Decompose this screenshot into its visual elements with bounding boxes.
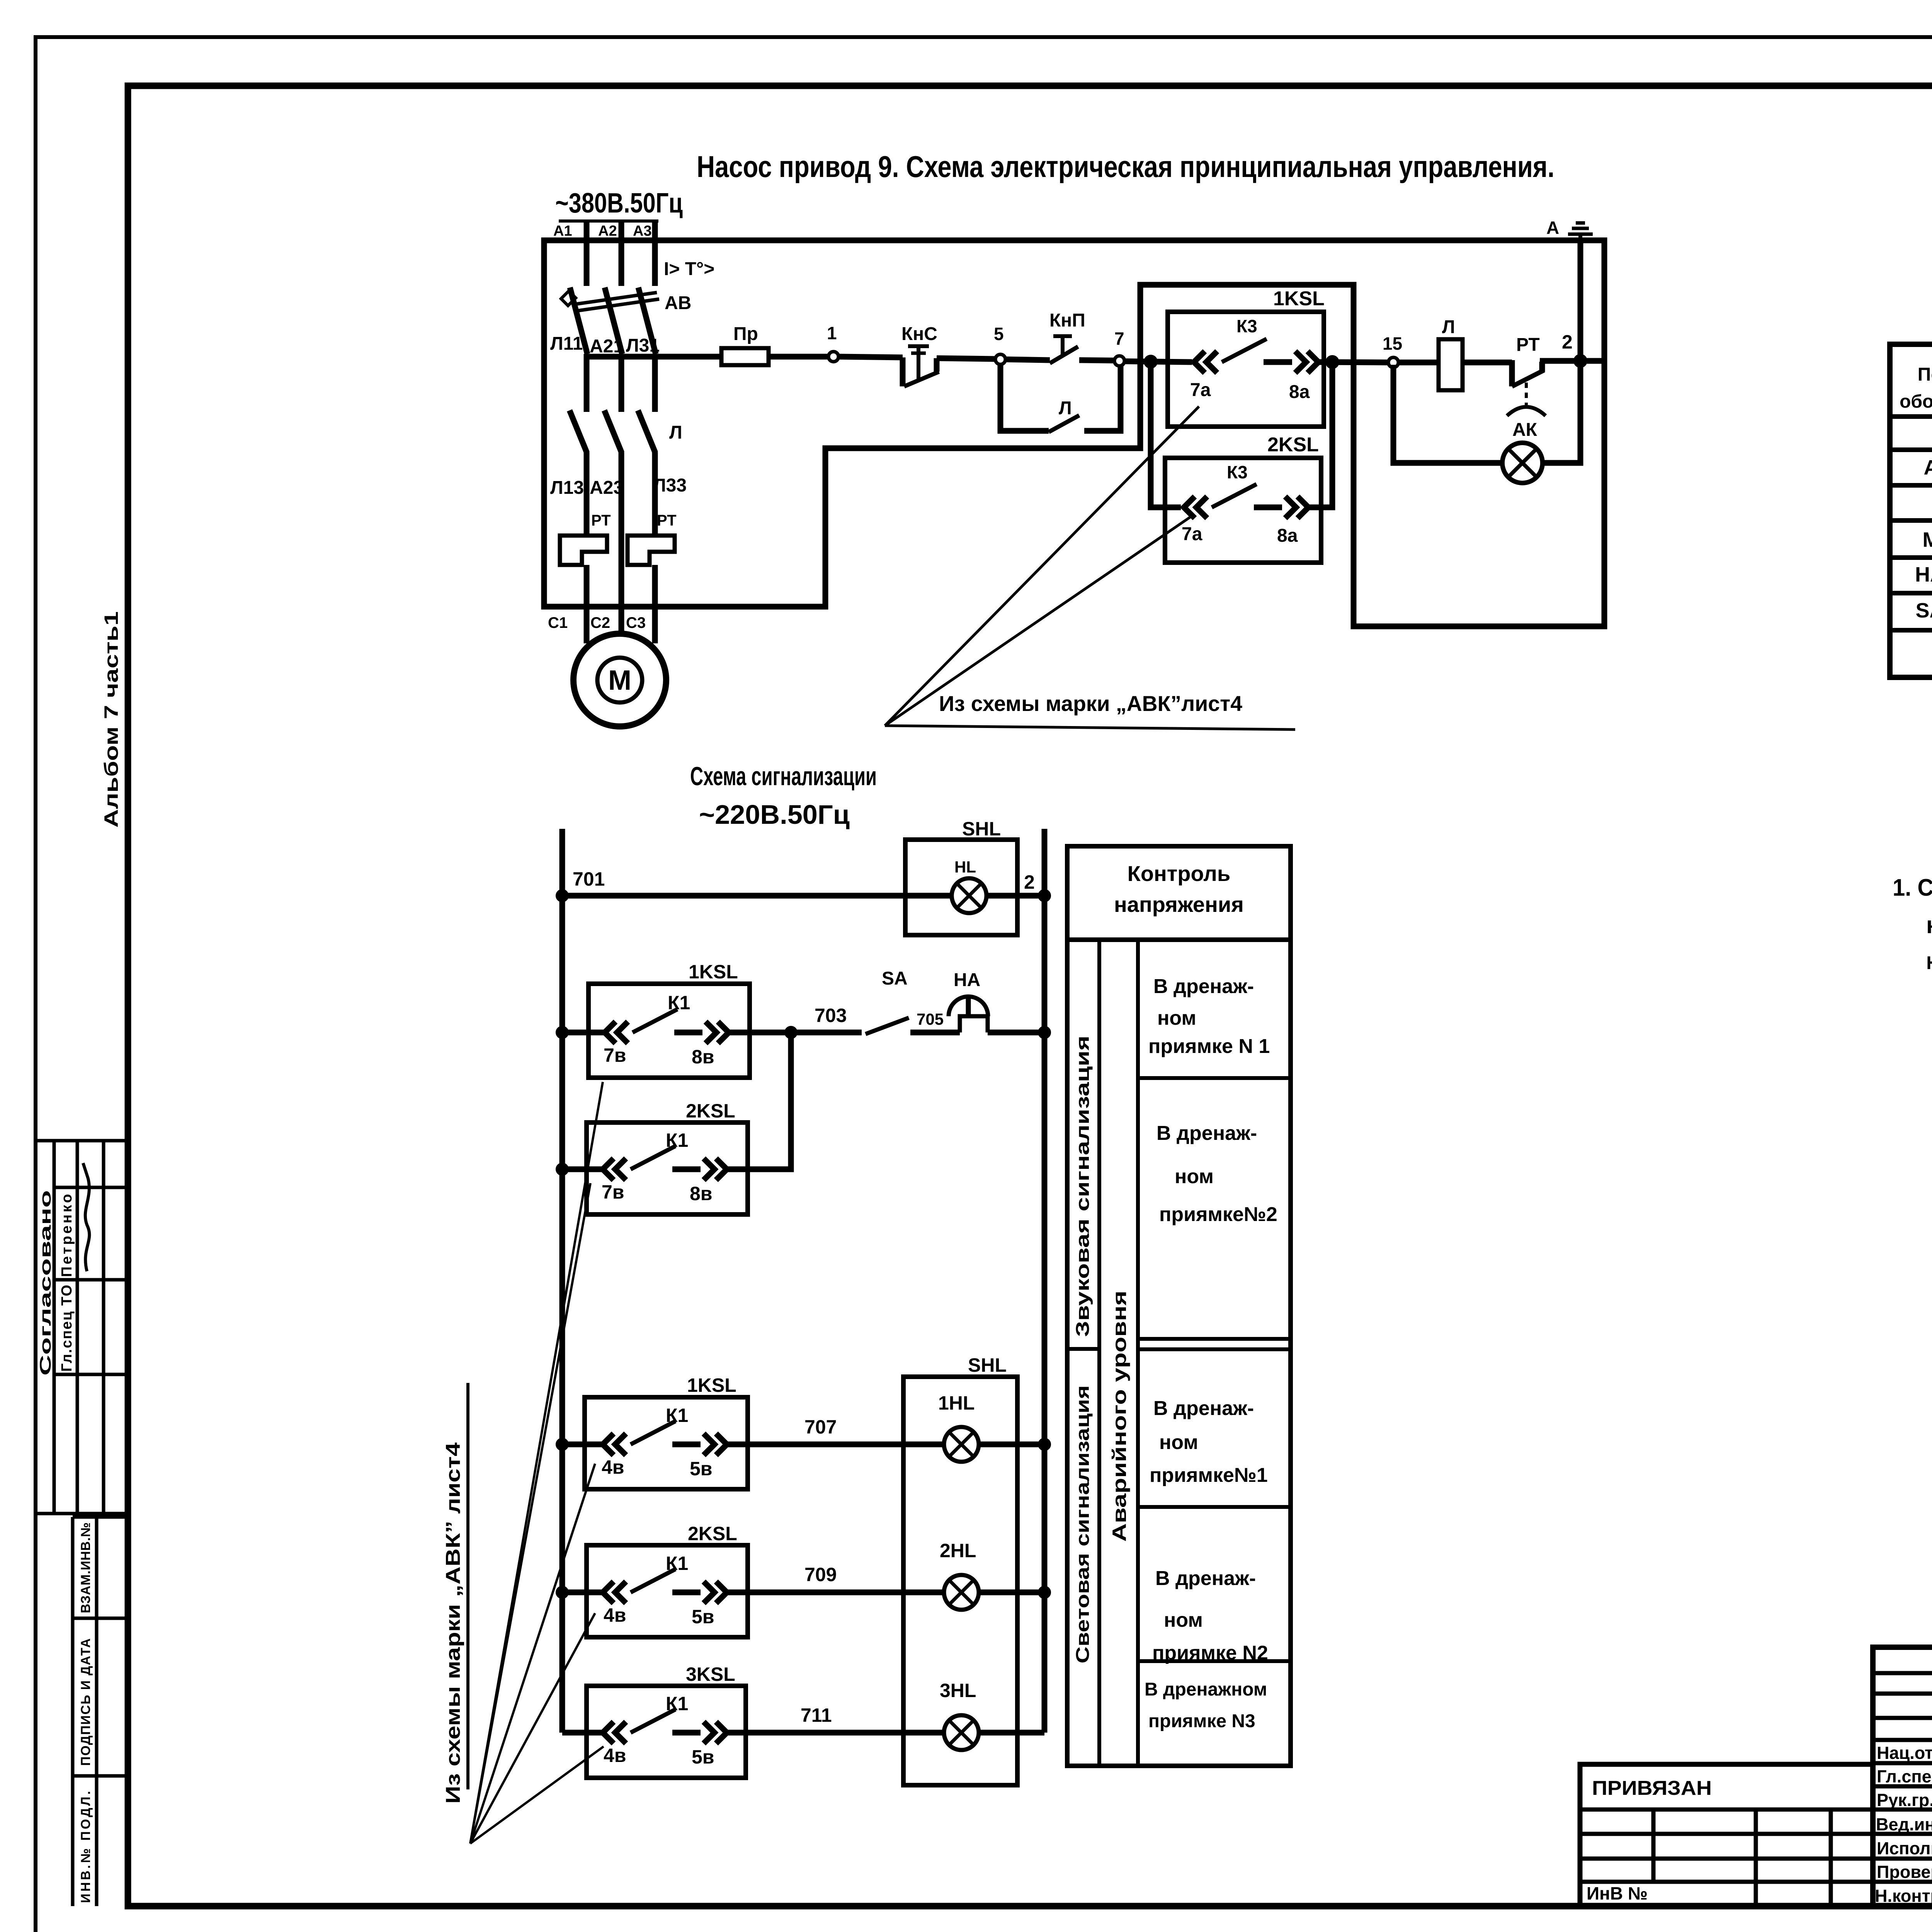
svg-text:КнС: КнС	[901, 324, 937, 344]
svg-text:РТ: РТ	[657, 512, 677, 529]
svg-text:напряжения: напряжения	[1114, 892, 1244, 917]
svg-text:Петренко: Петренко	[59, 1194, 75, 1277]
svg-text:нижнего уровня в дренажных: нижнего уровня в дренажных приямках.	[1926, 948, 1932, 975]
svg-text:Схема сигнализации: Схема сигнализации	[690, 762, 877, 791]
svg-text:5в: 5в	[690, 1458, 713, 1480]
svg-text:701: 701	[573, 868, 605, 890]
svg-text:А23: А23	[590, 478, 624, 498]
svg-text:А2: А2	[598, 223, 617, 239]
svg-text:Гл.спец ТО: Гл.спец ТО	[59, 1285, 75, 1372]
svg-text:В дренаж-: В дренаж-	[1153, 975, 1254, 998]
svg-text:Звуковая сигнализация: Звуковая сигнализация	[1073, 1036, 1093, 1337]
svg-text:С2: С2	[590, 614, 610, 631]
svg-text:С3: С3	[626, 614, 646, 631]
svg-text:3HL: 3HL	[940, 1680, 976, 1701]
svg-text:РТ: РТ	[1516, 335, 1540, 355]
svg-text:Световая сигнализация: Световая сигнализация	[1073, 1385, 1093, 1663]
svg-text:ИнВ №: ИнВ №	[1587, 1883, 1648, 1903]
svg-text:705: 705	[917, 1010, 944, 1028]
svg-text:ном: ном	[1159, 1431, 1198, 1454]
svg-text:SHL: SHL	[962, 818, 1001, 840]
svg-text:К1: К1	[666, 1129, 688, 1151]
svg-text:4в: 4в	[604, 1604, 626, 1626]
svg-text:НА: НА	[1915, 563, 1932, 586]
svg-text:2HL: 2HL	[940, 1540, 976, 1561]
svg-text:КнП: КнП	[1049, 310, 1085, 331]
svg-text:Альбом 7 часть1: Альбом 7 часть1	[100, 611, 122, 828]
svg-text:К1: К1	[666, 1405, 688, 1426]
svg-text:1. Схемой управления предусм: 1. Схемой управления предусмотрено ручно…	[1893, 874, 1932, 901]
svg-text:Гл.спец: Гл.спец	[1877, 1767, 1932, 1786]
svg-text:~220В.50Гц: ~220В.50Гц	[699, 799, 850, 830]
svg-text:5: 5	[994, 324, 1004, 344]
svg-text:SHL: SHL	[968, 1354, 1007, 1376]
svg-text:1KSL: 1KSL	[689, 961, 738, 983]
svg-text:703: 703	[815, 1005, 847, 1026]
svg-text:8в: 8в	[690, 1183, 713, 1204]
svg-text:2: 2	[1024, 871, 1035, 893]
svg-text:насоса и автоматическое отк: насоса и автоматическое отключение при д…	[1926, 912, 1932, 939]
svg-text:HL: HL	[954, 858, 976, 876]
svg-text:Из схемы марки „АВК” лист4: Из схемы марки „АВК” лист4	[442, 1442, 464, 1804]
svg-text:Насос привод 9. Схема электрич: Насос привод 9. Схема электрическая прин…	[697, 150, 1554, 184]
svg-text:8в: 8в	[692, 1046, 714, 1068]
svg-text:1: 1	[827, 323, 837, 343]
svg-text:1HL: 1HL	[938, 1392, 975, 1414]
svg-text:А3: А3	[633, 223, 652, 239]
svg-text:ИНВ.№ ПОДЛ.: ИНВ.№ ПОДЛ.	[78, 1791, 93, 1903]
svg-text:Согласовано: Согласовано	[37, 1190, 54, 1376]
svg-text:А21: А21	[590, 336, 624, 357]
svg-text:Из схемы марки „АВК”лист4: Из схемы марки „АВК”лист4	[939, 691, 1242, 716]
svg-text:3KSL: 3KSL	[686, 1663, 735, 1685]
svg-text:ПОДПИСЬ И ДАТА: ПОДПИСЬ И ДАТА	[78, 1638, 93, 1766]
svg-text:приямке N2: приямке N2	[1152, 1642, 1268, 1664]
svg-text:Л: Л	[1059, 398, 1072, 418]
svg-text:711: 711	[801, 1704, 832, 1726]
svg-text:В дренаж-: В дренаж-	[1155, 1567, 1256, 1590]
svg-text:1KSL: 1KSL	[687, 1374, 736, 1396]
svg-text:7: 7	[1114, 328, 1124, 349]
svg-text:1KSL: 1KSL	[1273, 287, 1325, 310]
svg-text:8а: 8а	[1277, 526, 1298, 546]
svg-text:К1: К1	[668, 992, 690, 1014]
svg-text:приямке N 1: приямке N 1	[1148, 1035, 1270, 1058]
svg-text:5в: 5в	[692, 1746, 714, 1768]
svg-text:РТ: РТ	[591, 512, 611, 529]
svg-text:Л11: Л11	[550, 333, 583, 354]
svg-text:А1: А1	[553, 223, 572, 239]
svg-text:Вед.инж: Вед.инж	[1876, 1815, 1932, 1834]
svg-text:обознач: обознач	[1900, 391, 1932, 412]
svg-text:А: А	[1924, 456, 1932, 479]
svg-text:С1: С1	[548, 614, 568, 631]
svg-text:приямке N3: приямке N3	[1148, 1711, 1255, 1731]
svg-text:Рук.гр.: Рук.гр.	[1877, 1790, 1932, 1810]
svg-text:Пр: Пр	[733, 324, 758, 344]
svg-text:Н.контр.: Н.контр.	[1875, 1886, 1932, 1906]
svg-text:ном: ном	[1175, 1165, 1214, 1188]
svg-text:SA: SA	[882, 968, 908, 989]
svg-text:М: М	[1923, 528, 1932, 551]
svg-text:Контроль: Контроль	[1128, 861, 1231, 886]
svg-text:8а: 8а	[1289, 382, 1310, 402]
svg-text:Л33: Л33	[653, 475, 687, 496]
svg-text:приямке№1: приямке№1	[1150, 1464, 1268, 1486]
svg-text:707: 707	[804, 1416, 837, 1438]
svg-text:НА: НА	[954, 970, 980, 990]
svg-text:приямке№2: приямке№2	[1159, 1203, 1277, 1226]
svg-text:Провер.: Провер.	[1877, 1862, 1932, 1882]
svg-text:В дренажном: В дренажном	[1145, 1679, 1267, 1700]
svg-text:В дренаж-: В дренаж-	[1156, 1122, 1257, 1145]
svg-text:7а: 7а	[1182, 524, 1202, 544]
svg-text:2: 2	[1562, 331, 1573, 353]
svg-text:ПРИВЯЗАН: ПРИВЯЗАН	[1592, 1777, 1712, 1799]
svg-text:К3: К3	[1227, 462, 1248, 482]
svg-text:Исполн.: Исполн.	[1877, 1838, 1932, 1858]
svg-text:ном: ном	[1157, 1007, 1196, 1029]
svg-text:АК: АК	[1512, 420, 1537, 440]
svg-text:SA: SA	[1915, 599, 1932, 622]
svg-text:5в: 5в	[692, 1606, 714, 1628]
svg-text:2KSL: 2KSL	[686, 1100, 735, 1122]
svg-text:В дренаж-: В дренаж-	[1153, 1397, 1254, 1420]
svg-text:7а: 7а	[1190, 380, 1211, 400]
svg-text:ном: ном	[1164, 1609, 1203, 1631]
svg-text:К3: К3	[1236, 316, 1257, 336]
svg-text:Л31: Л31	[626, 335, 660, 356]
svg-text:А: А	[1546, 218, 1559, 238]
svg-text:I> T°>: I> T°>	[664, 259, 714, 279]
svg-text:Л: Л	[1442, 317, 1455, 337]
svg-text:Л: Л	[669, 422, 682, 443]
svg-text:2KSL: 2KSL	[688, 1523, 737, 1544]
svg-text:4в: 4в	[604, 1745, 626, 1766]
svg-text:АВ: АВ	[665, 293, 691, 313]
svg-text:4в: 4в	[602, 1456, 624, 1478]
svg-text:7в: 7в	[604, 1044, 626, 1066]
svg-text:М: М	[608, 665, 631, 696]
svg-text:Поз.: Поз.	[1918, 364, 1932, 385]
svg-text:Аварийного уровня: Аварийного уровня	[1109, 1291, 1130, 1542]
svg-text:ВЗАМ.ИНВ.№: ВЗАМ.ИНВ.№	[78, 1522, 93, 1613]
svg-text:К1: К1	[666, 1693, 688, 1714]
svg-text:Л13: Л13	[550, 478, 584, 498]
svg-text:15: 15	[1383, 333, 1402, 354]
svg-text:2KSL: 2KSL	[1267, 434, 1319, 456]
svg-text:709: 709	[804, 1564, 837, 1585]
svg-text:Нац.отд: Нац.отд	[1877, 1743, 1932, 1763]
svg-text:~380В.50Гц: ~380В.50Гц	[555, 188, 683, 219]
svg-text:К1: К1	[666, 1553, 688, 1574]
svg-text:7в: 7в	[602, 1181, 624, 1203]
